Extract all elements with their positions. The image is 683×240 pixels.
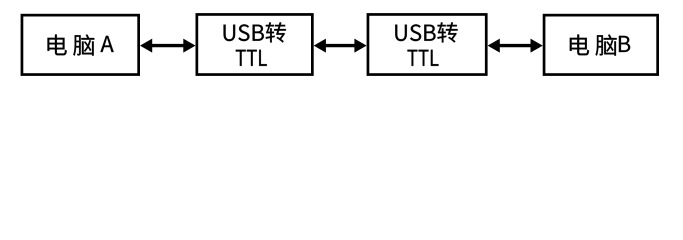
label 电脑B	[570, 34, 630, 55]
label TTL (adapter 2, line 2)	[407, 50, 438, 66]
box 电脑B (computer B)	[544, 15, 658, 74]
label USB转 (adapter 1, line 1)	[224, 22, 286, 42]
double-headed arrow: 电脑A to USB转TTL adapter 1	[140, 39, 196, 53]
box USB转TTL adapter 2	[368, 14, 486, 74]
double-headed arrow: USB转TTL adapter 2 to 电脑B	[488, 39, 543, 53]
label 电脑A	[48, 34, 114, 55]
label TTL (adapter 1, line 2)	[236, 50, 267, 66]
box 电脑A (computer A)	[22, 15, 139, 74]
box USB转TTL adapter 1	[197, 14, 313, 74]
label USB转 (adapter 2, line 1)	[395, 22, 457, 42]
double-headed arrow: USB转TTL adapter 1 to adapter 2	[314, 39, 367, 53]
